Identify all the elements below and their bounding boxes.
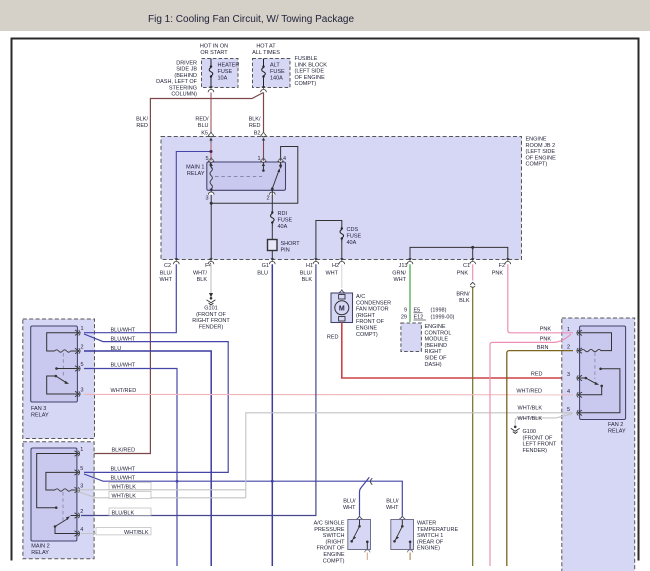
MAIN2 internals: pin1 path: [37, 454, 77, 508]
svg-text:(RIGHT: (RIGHT: [326, 539, 346, 545]
label box BLU/BLK: [109, 508, 151, 515]
label box WHT/BLK pin4: [96, 528, 151, 535]
svg-text:PIN: PIN: [281, 248, 290, 254]
wire RED/BLU fuse to K6: [210, 93, 212, 134]
wire WHT/BLK MAIN2 pin4 stub: [81, 533, 151, 535]
svg-text:40A: 40A: [278, 224, 288, 230]
svg-text:4: 4: [80, 527, 83, 533]
MAIN1 switch blade: [280, 162, 282, 165]
fuse CDS FUSE 40A loop from H1 to H2: [316, 221, 362, 260]
svg-text:COMPT): COMPT): [356, 332, 378, 338]
svg-text:29: 29: [401, 315, 407, 321]
svg-text:ENGINE: ENGINE: [425, 324, 446, 330]
wire BLU/WHT FAN3 pin5 riser down: [84, 369, 177, 567]
svg-text:C2: C2: [164, 263, 171, 269]
svg-text:1: 1: [257, 156, 260, 162]
svg-text:(FRONT OF: (FRONT OF: [523, 435, 553, 441]
svg-text:1: 1: [567, 327, 570, 333]
svg-text:FUSE: FUSE: [278, 218, 293, 224]
wire BLK/RED from ALT fuse down left side to MAIN 2 RELAY pin 1: [81, 93, 264, 454]
svg-text:WHT/BLK: WHT/BLK: [124, 530, 149, 536]
svg-text:A/C: A/C: [356, 294, 365, 300]
svg-text:10A: 10A: [218, 76, 228, 82]
svg-text:WHT: WHT: [393, 277, 406, 283]
connector C1: [470, 258, 476, 264]
svg-text:FRONT OF: FRONT OF: [356, 319, 385, 325]
junction dot C1: [471, 246, 474, 249]
svg-text:4: 4: [567, 389, 570, 395]
svg-text:SIDE JB: SIDE JB: [176, 67, 197, 73]
wire J13 C1 F2 loop: [410, 247, 508, 259]
svg-text:RELAY: RELAY: [31, 413, 49, 419]
svg-text:2: 2: [81, 345, 84, 351]
svg-text:140A: 140A: [270, 76, 283, 82]
relay FAN 2 RELAY dashed box: [562, 318, 635, 571]
svg-text:(BEHIND: (BEHIND: [174, 73, 197, 79]
svg-text:RIGHT FRONT: RIGHT FRONT: [192, 318, 230, 324]
wire GRN/WHT J13 to ECM: [409, 264, 411, 322]
connector G1: [269, 258, 275, 264]
svg-text:ENGINE: ENGINE: [356, 326, 377, 332]
FAN3 switch: [47, 376, 78, 394]
svg-text:WATER: WATER: [417, 521, 436, 527]
svg-text:RED/: RED/: [195, 117, 209, 123]
wire PNK F2 to FAN2 pin1: [508, 264, 573, 333]
switch A/C SINGLE PRESSURE SWITCH: [314, 516, 371, 565]
module ENGINE CONTROL MODULE: [401, 323, 451, 368]
svg-text:FAN 3: FAN 3: [31, 406, 46, 412]
wire WHT/BLK F4 to G101: [210, 264, 212, 295]
MAIN1 relay dashed link: [215, 176, 262, 178]
svg-text:G100: G100: [523, 429, 536, 435]
svg-text:3: 3: [81, 388, 84, 394]
junction dot pin3 column: [210, 202, 213, 205]
ground G100: [511, 426, 520, 434]
svg-text:RED: RED: [531, 372, 543, 378]
svg-text:BLU: BLU: [198, 123, 209, 129]
svg-text:BLK: BLK: [302, 277, 313, 283]
fuse ALT FUSE 140A: [253, 59, 291, 93]
wire WHT/RED FAN3 pin3 to FAN2 pin4: [84, 393, 573, 395]
wire BLU/RED fuse to B2: [263, 93, 265, 134]
svg-text:FAN 2: FAN 2: [608, 422, 623, 428]
svg-text:BRN: BRN: [537, 345, 549, 351]
svg-text:CDS: CDS: [347, 227, 359, 233]
connector H2: [339, 258, 345, 264]
switch WATER TEMPERATURE SWITCH 1: [391, 516, 459, 552]
connector J13: [407, 258, 413, 264]
svg-text:RELAY: RELAY: [608, 429, 626, 435]
motor A/C CONDENSER FAN MOTOR: [331, 290, 391, 338]
svg-text:BLK/: BLK/: [136, 117, 148, 123]
wire WHT H2 to motor: [341, 264, 343, 288]
svg-text:Fig 1: Cooling Fan Circuit, W/: Fig 1: Cooling Fan Circuit, W/ Towing Pa…: [148, 14, 354, 25]
MAIN1 pin1 stub: [262, 162, 264, 170]
svg-text:BLU/WHT: BLU/WHT: [111, 336, 136, 342]
ECM pin labels: [401, 308, 455, 321]
connector C2: [173, 258, 179, 264]
svg-text:(1999-00): (1999-00): [431, 315, 455, 321]
svg-text:2: 2: [266, 196, 269, 202]
svg-text:WHT/BLK: WHT/BLK: [518, 406, 543, 412]
fuse RDI FUSE 40A: [271, 190, 293, 230]
wire BLU FAN3 pin2 down: [84, 351, 211, 566]
wire WHT/BLK FAN2 pin5 to G100: [515, 414, 572, 425]
svg-text:PRESSURE: PRESSURE: [314, 527, 345, 533]
FAN2 switch: [580, 377, 585, 379]
wire RED motor to FAN2 pin 3: [342, 323, 573, 379]
fuse HEATER FUSE 10A: [202, 59, 240, 93]
svg-text:DASH, LEFT OF: DASH, LEFT OF: [156, 79, 197, 85]
svg-text:5: 5: [567, 407, 570, 413]
wire branch pin5 to C2 column: [176, 152, 211, 260]
wire BRN FAN2 pin2 down: [507, 351, 573, 566]
svg-text:RIGHT: RIGHT: [425, 349, 443, 355]
FAN2 pin5 L path: [580, 369, 620, 413]
svg-text:WHT/BLK: WHT/BLK: [112, 485, 137, 491]
svg-text:RED: RED: [249, 123, 261, 129]
wire BLU/BLK H1 to MAIN2 pin2: [81, 264, 316, 515]
wire BLU/WHT C2 to FAN3 pin1: [84, 264, 176, 332]
svg-text:WHT/: WHT/: [193, 271, 208, 277]
header bar: [0, 0, 650, 31]
svg-text:B2: B2: [254, 131, 261, 137]
svg-text:HOT AT: HOT AT: [256, 44, 276, 50]
label FUSIBLE LINK BLOCK: [295, 56, 328, 87]
svg-text:MAIN 2: MAIN 2: [31, 544, 49, 550]
MAIN2 pin connectors: [75, 451, 80, 456]
svg-text:BLU/WHT: BLU/WHT: [111, 328, 136, 334]
MAIN1 relay coil: [210, 163, 212, 191]
relay MAIN 2 RELAY dashed box: [23, 442, 94, 559]
wire BLU/WHT MAIN2 pin5 to pressure switches: [84, 474, 402, 516]
svg-text:OR START: OR START: [200, 50, 228, 56]
connector H1: [313, 258, 319, 264]
MAIN2 pin5-coil-pin3: [46, 472, 77, 490]
FAN2 dashed link: [594, 353, 596, 380]
svg-text:ENGINE: ENGINE: [526, 137, 547, 143]
svg-text:CONTROL: CONTROL: [425, 330, 452, 336]
svg-text:MAIN 1: MAIN 1: [186, 165, 204, 171]
svg-text:(BEHIND: (BEHIND: [425, 343, 448, 349]
svg-text:COMPT): COMPT): [526, 162, 548, 168]
wire TAN below water temp switch: [408, 550, 413, 553]
svg-text:ALT: ALT: [270, 63, 280, 69]
svg-text:K5: K5: [201, 131, 208, 137]
svg-text:HEATER: HEATER: [218, 63, 240, 69]
FAN2 internals: pin2-coil-pin1 loop: [580, 333, 612, 351]
svg-text:STEERING: STEERING: [169, 85, 197, 91]
svg-text:COLUMN): COLUMN): [171, 92, 197, 98]
svg-text:RDI: RDI: [278, 211, 288, 217]
svg-text:ALL TIMES: ALL TIMES: [252, 50, 280, 56]
svg-text:RED: RED: [327, 335, 339, 341]
svg-text:(REAR OF: (REAR OF: [417, 539, 444, 545]
svg-text:3: 3: [567, 372, 570, 378]
junction dot riser BLU/WHT: [176, 480, 179, 483]
svg-text:3: 3: [80, 484, 83, 490]
MAIN2 dashed link: [62, 492, 64, 522]
svg-text:COMPT): COMPT): [295, 81, 317, 87]
svg-text:WHT: WHT: [325, 271, 338, 277]
svg-text:2: 2: [80, 509, 83, 515]
svg-text:HOT IN ON: HOT IN ON: [200, 44, 228, 50]
svg-text:WHT: WHT: [159, 277, 172, 283]
svg-text:LINK BLOCK: LINK BLOCK: [295, 62, 328, 68]
FAN3 pin5 stub: [57, 368, 78, 370]
ground G101: [207, 297, 216, 305]
svg-text:OF ENGINE: OF ENGINE: [526, 155, 557, 161]
svg-text:ROOM JB 2: ROOM JB 2: [526, 143, 556, 149]
svg-text:BLU/BLK: BLU/BLK: [112, 510, 135, 516]
connector F2: [505, 258, 511, 264]
svg-text:PNK: PNK: [457, 271, 469, 277]
svg-text:CONDENSER: CONDENSER: [356, 300, 391, 306]
svg-text:BLU/: BLU/: [343, 499, 356, 505]
svg-text:4: 4: [283, 156, 286, 162]
svg-text:5: 5: [81, 362, 84, 368]
wire WHT/BLK MAIN2 pin3 riser to FAN2 pin5: [77, 413, 573, 498]
svg-text:PNK: PNK: [540, 327, 552, 333]
svg-text:RELAY: RELAY: [31, 550, 49, 556]
svg-text:BLU/WHT: BLU/WHT: [111, 475, 136, 481]
svg-text:(1998): (1998): [431, 308, 447, 314]
svg-text:WHT/RED: WHT/RED: [111, 388, 137, 394]
svg-text:5: 5: [205, 156, 208, 162]
svg-text:FUSE: FUSE: [270, 69, 285, 75]
svg-text:BLU/WHT: BLU/WHT: [111, 466, 136, 472]
junction box ENGINE ROOM JB 2: [161, 137, 556, 260]
FAN2 pin connectors: [577, 330, 582, 335]
svg-text:WHT: WHT: [343, 505, 356, 511]
svg-text:A/C SINGLE: A/C SINGLE: [314, 521, 345, 527]
svg-text:MODULE: MODULE: [425, 337, 449, 343]
svg-text:BLK/: BLK/: [249, 117, 261, 123]
wire PNK FAN2 pin1 second down: [490, 334, 571, 566]
svg-text:SHORT: SHORT: [281, 241, 301, 247]
svg-text:TEMPERATURE: TEMPERATURE: [417, 527, 458, 533]
svg-text:BLU/: BLU/: [300, 271, 313, 277]
connector F4: [208, 258, 214, 264]
svg-text:(FRONT OF: (FRONT OF: [196, 312, 226, 318]
svg-text:BLU: BLU: [257, 271, 268, 277]
svg-text:G101: G101: [204, 306, 217, 312]
svg-text:DRIVER: DRIVER: [176, 61, 197, 67]
FAN3 coil: [55, 350, 71, 352]
svg-text:(RIGHT: (RIGHT: [356, 313, 376, 319]
svg-text:(LEFT SIDE: (LEFT SIDE: [526, 149, 556, 155]
svg-text:OF ENGINE: OF ENGINE: [295, 75, 326, 81]
svg-text:COMPT): COMPT): [323, 558, 345, 564]
svg-text:J13: J13: [399, 263, 408, 269]
wire TAN below A/C switch: [365, 550, 370, 553]
FAN3 internals: pin1-coil-pin2 loop: [47, 333, 78, 351]
svg-text:C1: C1: [463, 263, 470, 269]
svg-text:H2: H2: [332, 263, 339, 269]
svg-text:FUSE: FUSE: [347, 234, 362, 240]
FAN3 dashed link: [62, 353, 64, 376]
connector B2: [261, 132, 267, 143]
svg-text:H1: H1: [306, 263, 313, 269]
short pin: [268, 226, 301, 260]
wire PNK C1 short: [472, 264, 474, 280]
svg-text:(LEFT SIDE: (LEFT SIDE: [295, 69, 325, 75]
svg-text:WHT/RED: WHT/RED: [516, 389, 542, 395]
svg-text:2: 2: [567, 345, 570, 351]
svg-text:SWITCH: SWITCH: [323, 533, 345, 539]
svg-text:GRN/: GRN/: [392, 271, 406, 277]
svg-text:FENDER): FENDER): [199, 324, 224, 330]
svg-text:FENDER): FENDER): [523, 448, 548, 454]
svg-text:SIDE OF: SIDE OF: [425, 356, 448, 362]
svg-text:BLU/: BLU/: [160, 271, 173, 277]
wire K6 to pin 5: [210, 143, 212, 163]
MAIN2 switch: [54, 525, 57, 528]
svg-text:F2: F2: [499, 263, 505, 269]
label box WHT/BLK 1: [109, 482, 151, 489]
svg-text:BLU: BLU: [111, 346, 122, 352]
relay FAN 3 RELAY dashed box: [23, 319, 95, 439]
svg-text:1: 1: [81, 326, 84, 332]
junction dot pin5/C2: [210, 150, 213, 153]
wire pin 4 loop to F4 column: [211, 147, 298, 204]
svg-text:RELAY: RELAY: [187, 171, 205, 177]
wire BLU G1 down: [271, 264, 273, 566]
svg-text:BLU/: BLU/: [386, 499, 399, 505]
svg-text:BLK: BLK: [459, 298, 470, 304]
svg-text:1: 1: [80, 447, 83, 453]
svg-text:DASH): DASH): [425, 362, 442, 368]
svg-text:PNK: PNK: [492, 271, 504, 277]
wire B2 to pin 1: [263, 143, 265, 163]
svg-text:FUSE: FUSE: [218, 69, 233, 75]
inline connector on BLU/WHT to A/C switch: [360, 477, 370, 515]
svg-text:SWITCH 1: SWITCH 1: [417, 533, 443, 539]
junction dot G1 column: [271, 480, 274, 483]
inline connector C1: [470, 282, 475, 287]
svg-text:BLK/RED: BLK/RED: [112, 448, 136, 454]
svg-text:WHT: WHT: [386, 505, 399, 511]
wire BLU/WHT FAN3 pin1 to MAIN2 pin5: [84, 334, 228, 472]
svg-text:RED: RED: [136, 123, 148, 129]
svg-text:FUSIBLE: FUSIBLE: [295, 56, 318, 62]
svg-text:WHT/BLK: WHT/BLK: [518, 416, 543, 422]
wire BRN/BLK C1 to bottom: [472, 287, 474, 566]
svg-text:ENGINE): ENGINE): [417, 546, 440, 552]
svg-text:9: 9: [404, 308, 407, 314]
svg-text:WHT/BLK: WHT/BLK: [112, 494, 137, 500]
svg-text:FRONT OF: FRONT OF: [316, 546, 345, 552]
label DRIVER SIDE JB: [156, 61, 197, 98]
wire pin 3 to F4: [210, 190, 212, 259]
svg-text:G1: G1: [262, 263, 269, 269]
relay MAIN 1 RELAY box: [186, 162, 285, 190]
connector K6: [208, 132, 214, 143]
svg-text:5: 5: [80, 466, 83, 472]
svg-text:ENGINE: ENGINE: [323, 552, 344, 558]
wire C1 drop: [472, 247, 474, 259]
svg-text:M: M: [339, 305, 345, 312]
svg-text:BRN/: BRN/: [456, 292, 470, 298]
label box WHT/BLK 2: [109, 491, 151, 498]
svg-text:LEFT FRONT: LEFT FRONT: [523, 442, 557, 448]
svg-text:PNK: PNK: [540, 337, 552, 343]
FAN3 pin connectors: [75, 330, 80, 335]
svg-text:FAN MOTOR: FAN MOTOR: [356, 307, 389, 313]
svg-text:BLK: BLK: [197, 277, 208, 283]
MAIN1 pin connectors and numbers: [208, 157, 214, 168]
svg-text:BLU/WHT: BLU/WHT: [111, 363, 136, 369]
svg-text:40A: 40A: [347, 240, 357, 246]
svg-text:3: 3: [205, 196, 208, 202]
